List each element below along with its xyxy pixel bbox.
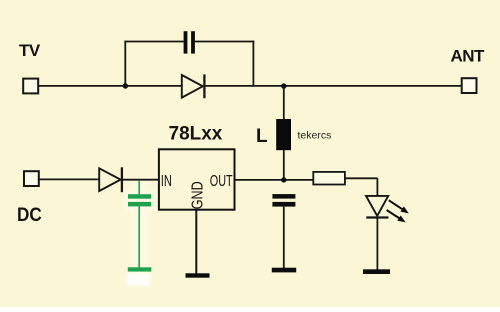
svg-text:ANT: ANT bbox=[451, 47, 486, 66]
wire OUT pin to resistor bbox=[235, 179, 314, 181]
wire LED to ground bbox=[376, 218, 378, 270]
white halo behind green capacitor branch (artifact) bbox=[124, 183, 155, 273]
capacitor C2 plates bbox=[128, 194, 151, 206]
LED arrow 1 bbox=[389, 200, 409, 213]
ground LED bbox=[363, 269, 390, 274]
diode D1 bbox=[182, 74, 205, 98]
ground green bbox=[128, 267, 152, 271]
svg-text:OUT: OUT bbox=[210, 172, 233, 189]
node out junction bbox=[281, 177, 286, 182]
wire bypass left vertical bbox=[124, 41, 126, 86]
svg-text:tekercs: tekercs bbox=[298, 129, 332, 141]
svg-text:TV: TV bbox=[19, 41, 41, 60]
wire bypass top left bbox=[124, 41, 183, 43]
wire bypass top right bbox=[195, 41, 254, 43]
terminal ANT bbox=[462, 78, 477, 93]
capacitor C3 plates bbox=[272, 194, 295, 206]
wire corner down to LED bbox=[376, 178, 378, 196]
terminal DC bbox=[24, 171, 39, 186]
svg-text:L: L bbox=[256, 126, 268, 147]
wire resistor to LED corner bbox=[345, 177, 378, 179]
white patch under green ground bbox=[127, 273, 150, 286]
wire GND pin bbox=[195, 210, 197, 274]
node junction right bbox=[281, 83, 286, 88]
wire bypass right vertical bbox=[252, 41, 254, 86]
capacitor C2 green wire bottom bbox=[138, 206, 140, 267]
wire diode to ANT bbox=[204, 85, 462, 87]
wire C3 to ground bbox=[283, 207, 285, 268]
LED D3 triangle bbox=[366, 196, 388, 216]
svg-text:DC: DC bbox=[17, 204, 42, 225]
inductor L body bbox=[276, 119, 291, 150]
node junction left bbox=[123, 83, 128, 88]
wire diode to IN pin bbox=[123, 179, 159, 181]
svg-text:IN: IN bbox=[161, 172, 172, 189]
LED D3 cathode bar bbox=[366, 216, 388, 218]
terminal TV bbox=[23, 79, 38, 94]
capacitor C2 green wire top bbox=[138, 180, 140, 194]
regulator U1 box bbox=[159, 149, 235, 209]
svg-text:GND: GND bbox=[188, 181, 206, 209]
svg-text:78Lxx: 78Lxx bbox=[169, 124, 223, 145]
wire junction to inductor bbox=[283, 86, 285, 120]
wire inductor to out node bbox=[283, 150, 285, 180]
wire DC to diode bbox=[39, 178, 100, 180]
LED arrow 2 bbox=[387, 210, 406, 222]
diode D2 bbox=[99, 167, 122, 192]
ground C3 bbox=[272, 268, 296, 273]
ground regulator bbox=[186, 273, 210, 277]
wire TV to diode bbox=[39, 85, 183, 87]
resistor R1 bbox=[313, 172, 345, 185]
capacitor C1 plates bbox=[184, 31, 195, 53]
